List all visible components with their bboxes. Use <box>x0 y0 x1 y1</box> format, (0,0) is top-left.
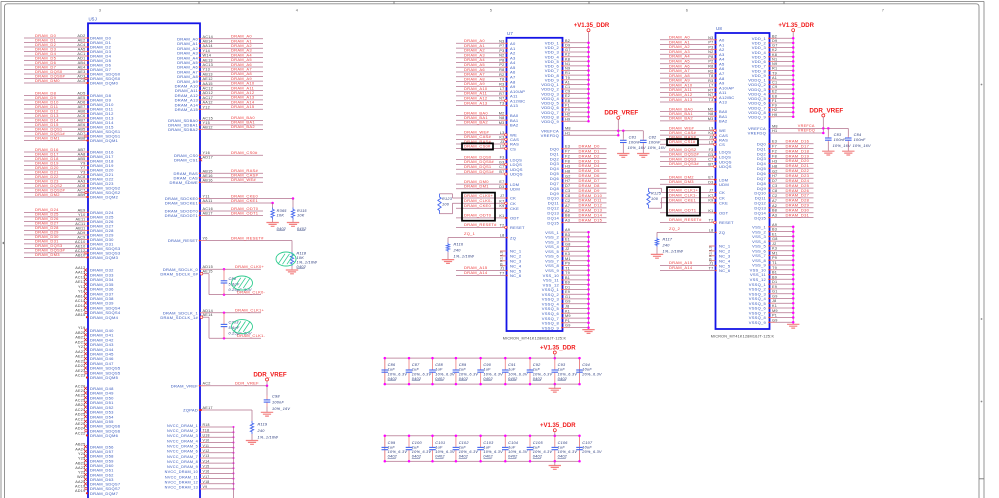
svg-text:AA15: AA15 <box>203 82 213 86</box>
svg-text:F8: F8 <box>772 155 777 159</box>
svg-text:P7: P7 <box>708 41 713 45</box>
svg-text:G9: G9 <box>565 300 571 304</box>
svg-text:M2: M2 <box>708 108 714 112</box>
svg-text:DRAM_DM2: DRAM_DM2 <box>35 192 60 197</box>
svg-text:DRAM_DQS3#: DRAM_DQS3# <box>669 161 699 166</box>
svg-text:K3: K3 <box>772 247 777 251</box>
svg-text:R7: R7 <box>499 92 504 96</box>
svg-text:R3: R3 <box>708 79 713 83</box>
svg-text:C90: C90 <box>483 363 491 367</box>
svg-text:NVCC_DRAM_1: NVCC_DRAM_1 <box>167 424 198 428</box>
svg-text:J2: J2 <box>565 247 570 251</box>
svg-text:AB17: AB17 <box>203 212 213 216</box>
svg-text:G9: G9 <box>565 324 571 328</box>
svg-text:AD1: AD1 <box>77 57 85 61</box>
svg-text:10%_6.3V: 10%_6.3V <box>388 450 408 454</box>
svg-text:H8: H8 <box>565 169 570 173</box>
svg-text:1uF: 1uF <box>459 445 467 449</box>
svg-text:10%_6.3V: 10%_6.3V <box>508 450 528 454</box>
svg-text:B8: B8 <box>565 214 570 218</box>
svg-text:AB7: AB7 <box>78 148 86 152</box>
svg-text:C7: C7 <box>499 165 504 169</box>
svg-text:AC24: AC24 <box>75 408 86 412</box>
svg-text:P3: P3 <box>708 45 713 49</box>
svg-text:Y15: Y15 <box>203 121 211 125</box>
svg-text:R8: R8 <box>708 65 713 69</box>
svg-text:Y14: Y14 <box>78 290 86 294</box>
svg-text:100nF: 100nF <box>649 140 661 144</box>
svg-text:0402: 0402 <box>412 455 422 459</box>
svg-text:H7: H7 <box>772 174 777 178</box>
svg-text:0402: 0402 <box>533 455 543 459</box>
svg-text:C8: C8 <box>772 189 777 193</box>
svg-text:AC7: AC7 <box>77 189 85 193</box>
svg-text:240: 240 <box>257 429 266 433</box>
svg-text:AE23: AE23 <box>75 369 85 373</box>
svg-text:AD2: AD2 <box>77 34 85 38</box>
svg-text:NVCC_DRAM_6: NVCC_DRAM_6 <box>167 450 198 454</box>
svg-text:Y13: Y13 <box>78 285 86 289</box>
svg-text:+V1.35_DDR: +V1.35_DDR <box>574 23 610 29</box>
svg-text:W14: W14 <box>203 54 212 58</box>
svg-text:K1: K1 <box>772 304 777 308</box>
svg-text:DQ15: DQ15 <box>547 220 559 225</box>
svg-text:0402: 0402 <box>459 455 469 459</box>
svg-text:C92: C92 <box>533 363 541 367</box>
svg-text:DRAM_A13: DRAM_A13 <box>464 100 488 105</box>
svg-text:UDM: UDM <box>719 182 729 187</box>
svg-text:A13: A13 <box>719 100 727 105</box>
svg-text:P8: P8 <box>499 58 504 62</box>
svg-text:Y16: Y16 <box>203 151 211 155</box>
svg-text:0402: 0402 <box>558 377 568 381</box>
svg-text:E2: E2 <box>565 94 570 98</box>
svg-text:+V1.35_DDR: +V1.35_DDR <box>540 345 576 351</box>
svg-text:MICRON_MT41K128M16JT-125:K: MICRON_MT41K128M16JT-125:K <box>711 335 775 339</box>
svg-text:T8: T8 <box>709 74 714 78</box>
svg-text:NC_6: NC_6 <box>510 273 522 278</box>
svg-text:C81: C81 <box>629 135 637 139</box>
svg-text:C100: C100 <box>412 441 423 445</box>
svg-text:+V1.35_DDR: +V1.35_DDR <box>540 423 576 429</box>
svg-text:G8: G8 <box>565 242 571 246</box>
svg-text:DRAM_SDODT1: DRAM_SDODT1 <box>165 213 199 218</box>
svg-text:N7: N7 <box>708 93 713 97</box>
svg-text:C101: C101 <box>435 441 445 445</box>
svg-text:CK: CK <box>719 190 725 195</box>
svg-text:DRAM_CS0#: DRAM_CS0# <box>231 150 258 155</box>
svg-text:C88: C88 <box>435 363 443 367</box>
svg-text:AC13: AC13 <box>75 275 86 279</box>
svg-text:V18: V18 <box>203 480 210 484</box>
svg-text:E1: E1 <box>772 232 777 236</box>
svg-text:AC1: AC1 <box>77 52 85 56</box>
svg-text:F3: F3 <box>500 156 505 160</box>
svg-text:NVCC_DRAM_10: NVCC_DRAM_10 <box>165 470 198 474</box>
svg-text:C1: C1 <box>772 81 777 85</box>
svg-text:E2: E2 <box>772 90 777 94</box>
svg-text:1uF: 1uF <box>412 445 420 449</box>
svg-text:0402: 0402 <box>388 455 398 459</box>
svg-text:N2: N2 <box>708 50 713 54</box>
svg-text:0402: 0402 <box>483 377 493 381</box>
svg-text:10K: 10K <box>277 214 285 218</box>
svg-text:AB8: AB8 <box>78 137 86 141</box>
svg-text:10K: 10K <box>297 214 305 218</box>
svg-text:10%_6.3V: 10%_6.3V <box>483 450 503 454</box>
svg-text:T1: T1 <box>772 261 777 265</box>
svg-text:V15: V15 <box>203 465 210 469</box>
svg-text:10uF: 10uF <box>582 445 592 449</box>
svg-text:R3: R3 <box>499 82 504 86</box>
svg-text:AC22: AC22 <box>75 431 86 435</box>
svg-text:ZQPAD: ZQPAD <box>183 408 198 413</box>
svg-text:1%_1/16W: 1%_1/16W <box>663 249 684 253</box>
svg-text:B2: B2 <box>565 39 570 43</box>
svg-text:AE20: AE20 <box>75 422 85 426</box>
svg-text:L3: L3 <box>709 127 714 131</box>
svg-text:V16: V16 <box>203 470 210 474</box>
svg-text:10%_16V: 10%_16V <box>272 407 290 411</box>
svg-text:0402: 0402 <box>277 227 287 231</box>
svg-text:100nF: 100nF <box>272 401 284 405</box>
svg-text:DRAM_SDCLK_0#: DRAM_SDCLK_0# <box>160 271 198 276</box>
svg-text:V13: V13 <box>203 454 210 458</box>
svg-text:AC9: AC9 <box>77 235 85 239</box>
svg-text:T3: T3 <box>500 102 505 106</box>
svg-text:Y10: Y10 <box>78 213 86 217</box>
svg-text:1%_1/16W: 1%_1/16W <box>454 255 475 259</box>
svg-text:H2: H2 <box>565 113 570 117</box>
svg-text:E9: E9 <box>565 290 570 294</box>
svg-text:B2: B2 <box>772 34 777 38</box>
svg-text:R7: R7 <box>708 88 713 92</box>
svg-text:K3: K3 <box>499 135 504 139</box>
svg-text:DRAM_DQM5: DRAM_DQM5 <box>90 375 119 380</box>
svg-text:AD5: AD5 <box>77 92 85 96</box>
svg-text:K1: K1 <box>565 309 570 313</box>
svg-text:1uF: 1uF <box>558 368 566 372</box>
svg-text:240: 240 <box>453 249 462 253</box>
svg-text:DRAM_WE#: DRAM_WE# <box>231 177 256 182</box>
svg-text:DRAM_CLK0+: DRAM_CLK0+ <box>464 193 494 198</box>
svg-text:Y6: Y6 <box>203 237 208 241</box>
svg-text:AB9: AB9 <box>78 193 86 197</box>
svg-text:VREFDQ: VREFDQ <box>748 131 766 136</box>
svg-text:B1: B1 <box>565 276 570 280</box>
svg-text:P8: P8 <box>708 55 713 59</box>
svg-text:C3: C3 <box>772 184 777 188</box>
svg-text:U18: U18 <box>203 434 210 438</box>
svg-text:10%_6.3V: 10%_6.3V <box>483 372 503 376</box>
svg-text:E1: E1 <box>565 238 570 242</box>
svg-text:100: 100 <box>651 197 659 201</box>
svg-text:AD24: AD24 <box>75 427 86 431</box>
svg-text:AD25: AD25 <box>75 413 86 417</box>
svg-text:10%_6.3V: 10%_6.3V <box>533 450 553 454</box>
svg-text:NVCC_DRAM_3: NVCC_DRAM_3 <box>167 434 198 438</box>
svg-text:AB10: AB10 <box>75 253 85 257</box>
svg-text:NVCC_DRAM_4: NVCC_DRAM_4 <box>167 439 198 443</box>
svg-text:C94: C94 <box>582 363 590 367</box>
svg-text:AE15: AE15 <box>203 270 213 274</box>
svg-text:A3: A3 <box>565 219 570 223</box>
svg-text:VREFDQ: VREFDQ <box>541 133 559 138</box>
svg-text:P7: P7 <box>499 44 504 48</box>
svg-text:P9: P9 <box>565 262 570 266</box>
svg-text:C86: C86 <box>388 363 396 367</box>
svg-text:E7: E7 <box>708 176 713 180</box>
svg-text:C82: C82 <box>649 135 657 139</box>
svg-text:P1: P1 <box>772 314 777 318</box>
svg-text:H1: H1 <box>565 131 570 135</box>
svg-text:NVCC_DRAM_5: NVCC_DRAM_5 <box>167 444 198 448</box>
svg-text:DRAM_SDCLK_1#: DRAM_SDCLK_1# <box>160 315 198 320</box>
svg-text:K1: K1 <box>708 209 713 213</box>
svg-text:A9: A9 <box>772 223 777 227</box>
svg-text:0402: 0402 <box>435 455 445 459</box>
svg-text:B9: B9 <box>565 281 570 285</box>
svg-text:N9: N9 <box>772 62 777 66</box>
svg-text:L2: L2 <box>500 145 505 149</box>
svg-text:AE16: AE16 <box>203 174 213 178</box>
svg-text:DRAM_ODT1: DRAM_ODT1 <box>669 208 697 213</box>
svg-text:DRAM_DQM3: DRAM_DQM3 <box>90 255 119 260</box>
svg-text:VREFCA: VREFCA <box>798 124 815 128</box>
svg-text:AE4: AE4 <box>78 66 86 70</box>
svg-text:VSSQ_9: VSSQ_9 <box>542 325 560 330</box>
svg-text:T9: T9 <box>772 266 777 270</box>
svg-text:100: 100 <box>442 203 450 207</box>
svg-text:K9: K9 <box>499 204 504 208</box>
svg-text:C107: C107 <box>582 441 593 445</box>
svg-text:H2: H2 <box>772 108 777 112</box>
svg-text:AC6: AC6 <box>77 114 85 118</box>
svg-text:K2: K2 <box>772 48 777 52</box>
svg-text:ZQ: ZQ <box>510 235 516 240</box>
svg-text:UDQS: UDQS <box>510 172 523 177</box>
svg-text:T1: T1 <box>565 266 570 270</box>
svg-text:AC23: AC23 <box>75 374 86 378</box>
svg-text:AE11: AE11 <box>75 217 85 221</box>
svg-text:J7: J7 <box>500 194 505 198</box>
svg-text:AE6: AE6 <box>78 123 86 127</box>
svg-text:C91: C91 <box>508 363 516 367</box>
svg-text:L3: L3 <box>500 131 505 135</box>
svg-text:AA8: AA8 <box>78 153 86 157</box>
svg-text:F1: F1 <box>565 104 570 108</box>
svg-text:1uF: 1uF <box>435 368 443 372</box>
svg-text:1uF: 1uF <box>388 368 396 372</box>
svg-text:DRAM_ODT0: DRAM_ODT0 <box>464 213 492 218</box>
svg-text:AE14: AE14 <box>75 309 85 313</box>
svg-text:DRAM_BA2: DRAM_BA2 <box>669 116 693 121</box>
svg-text:Y22: Y22 <box>78 471 86 475</box>
svg-text:AC5: AC5 <box>77 79 85 83</box>
svg-text:K7: K7 <box>708 194 713 198</box>
svg-text:ZQ: ZQ <box>719 230 725 235</box>
svg-text:AE25: AE25 <box>75 394 85 398</box>
svg-text:AC19: AC19 <box>75 485 86 489</box>
svg-text:D9: D9 <box>772 39 777 43</box>
svg-text:10uF: 10uF <box>582 368 592 372</box>
svg-text:B8: B8 <box>772 209 777 213</box>
svg-text:J2: J2 <box>772 242 777 246</box>
svg-text:Y25: Y25 <box>78 457 86 461</box>
svg-text:G7: G7 <box>565 48 571 52</box>
svg-text:10%_6.3V: 10%_6.3V <box>435 450 455 454</box>
svg-text:D3: D3 <box>499 185 504 189</box>
svg-text:B7: B7 <box>499 170 504 174</box>
svg-text:CKE: CKE <box>510 206 519 211</box>
svg-text:C9: C9 <box>772 85 777 89</box>
svg-text:10%_6.3V: 10%_6.3V <box>412 450 432 454</box>
svg-text:T7: T7 <box>709 267 714 271</box>
svg-text:H1: H1 <box>772 129 777 133</box>
svg-text:5.6pF: 5.6pF <box>229 283 240 287</box>
svg-text:100nF: 100nF <box>629 140 641 144</box>
svg-text:F2: F2 <box>565 155 570 159</box>
svg-text:K1: K1 <box>499 214 504 218</box>
svg-text:C105: C105 <box>533 441 544 445</box>
svg-text:D7: D7 <box>772 179 777 183</box>
svg-text:L8: L8 <box>500 234 505 238</box>
svg-text:AB5: AB5 <box>78 128 86 132</box>
svg-text:AB11: AB11 <box>75 226 85 230</box>
svg-text:AE13: AE13 <box>75 280 85 284</box>
svg-text:A9: A9 <box>565 228 570 232</box>
svg-text:M2: M2 <box>499 112 505 116</box>
svg-text:DDR_VREF: DDR_VREF <box>235 381 259 386</box>
svg-text:K8: K8 <box>772 53 777 57</box>
svg-text:C2: C2 <box>772 194 777 198</box>
svg-text:AD19: AD19 <box>75 489 86 493</box>
svg-text:ZQ_1: ZQ_1 <box>464 231 476 236</box>
svg-text:AB14: AB14 <box>203 40 213 44</box>
svg-text:E9: E9 <box>772 285 777 289</box>
svg-text:10%_6.3V: 10%_6.3V <box>558 450 578 454</box>
svg-text:D3: D3 <box>708 180 713 184</box>
svg-text:Y3: Y3 <box>80 171 85 175</box>
svg-text:AA12: AA12 <box>75 266 85 270</box>
svg-text:N9: N9 <box>565 67 570 71</box>
svg-text:AA24: AA24 <box>75 447 85 451</box>
svg-text:DQ15: DQ15 <box>754 215 766 220</box>
svg-text:AC14: AC14 <box>203 35 214 39</box>
svg-text:H9: H9 <box>772 113 777 117</box>
svg-text:J9 K1 L3: J9 K1 L3 <box>709 246 713 262</box>
svg-text:AD12: AD12 <box>203 91 214 95</box>
svg-text:F9: F9 <box>772 104 777 108</box>
svg-text:A1: A1 <box>772 76 777 80</box>
svg-text:D9: D9 <box>565 43 570 47</box>
svg-text:10%_16V: 10%_16V <box>648 146 666 150</box>
svg-text:AA5: AA5 <box>78 48 86 52</box>
svg-text:C99: C99 <box>388 441 396 445</box>
svg-text:100nF: 100nF <box>854 138 866 142</box>
svg-text:N1: N1 <box>565 62 570 66</box>
svg-text:B7: B7 <box>708 162 713 166</box>
svg-text:H7: H7 <box>565 179 570 183</box>
svg-text:NVCC_DRAM_9: NVCC_DRAM_9 <box>167 465 198 469</box>
svg-text:Y24: Y24 <box>78 452 86 456</box>
svg-text:0402: 0402 <box>483 455 493 459</box>
svg-text:BA2: BA2 <box>510 123 519 128</box>
svg-text:1%_1/16W: 1%_1/16W <box>258 435 279 439</box>
svg-text:K9: K9 <box>708 199 713 203</box>
svg-text:G1: G1 <box>565 295 571 299</box>
svg-text:DRAM_RESET#: DRAM_RESET# <box>669 217 702 222</box>
svg-text:G1: G1 <box>772 290 778 294</box>
svg-text:AB5: AB5 <box>78 157 86 161</box>
svg-text:AE24: AE24 <box>75 389 85 393</box>
svg-text:20%_6.3V: 20%_6.3V <box>581 372 602 376</box>
svg-text:F9: F9 <box>565 108 570 112</box>
svg-text:DRAM_DM3: DRAM_DM3 <box>35 252 60 257</box>
svg-text:U5J: U5J <box>89 16 98 21</box>
svg-text:H3: H3 <box>772 159 777 163</box>
svg-text:H9: H9 <box>565 117 570 121</box>
svg-text:R119: R119 <box>258 422 268 426</box>
svg-text:J1: J1 <box>500 267 505 271</box>
svg-text:C83: C83 <box>834 133 842 137</box>
svg-text:10%_6.3V: 10%_6.3V <box>388 372 408 376</box>
svg-text:A3: A3 <box>772 214 777 218</box>
svg-text:0402: 0402 <box>412 377 422 381</box>
svg-text:F2: F2 <box>772 150 777 154</box>
svg-text:AC14: AC14 <box>75 299 86 303</box>
svg-text:V9: V9 <box>203 485 208 489</box>
svg-text:R8: R8 <box>499 68 504 72</box>
svg-text:DRAM_DQM6: DRAM_DQM6 <box>90 433 119 438</box>
svg-text:DRAM_A14: DRAM_A14 <box>669 265 693 270</box>
svg-text:E3: E3 <box>565 145 570 149</box>
svg-text:AD6: AD6 <box>77 101 85 105</box>
svg-text:RESET: RESET <box>510 225 525 230</box>
svg-text:DRAM_D31: DRAM_D31 <box>786 212 810 217</box>
svg-text:ZQ_2: ZQ_2 <box>669 226 681 231</box>
svg-text:0402: 0402 <box>459 377 469 381</box>
svg-text:DRAM_A15: DRAM_A15 <box>231 104 255 109</box>
svg-text:DRAM_CS1#: DRAM_CS1# <box>669 139 696 144</box>
svg-text:UDM: UDM <box>510 187 520 192</box>
svg-text:D7: D7 <box>565 184 570 188</box>
svg-text:10%_6.3V: 10%_6.3V <box>558 372 578 376</box>
svg-text:A2: A2 <box>565 209 570 213</box>
svg-text:M8: M8 <box>772 124 778 128</box>
svg-text:V10: V10 <box>203 439 210 443</box>
svg-text:K3: K3 <box>565 252 570 256</box>
svg-text:0402: 0402 <box>388 377 398 381</box>
svg-text:Y11: Y11 <box>203 195 210 199</box>
svg-text:DRAM_DQM1: DRAM_DQM1 <box>90 138 119 143</box>
svg-text:0402: 0402 <box>533 377 543 381</box>
svg-text:AB12: AB12 <box>203 125 213 129</box>
svg-text:C102: C102 <box>459 441 470 445</box>
svg-text:CKE: CKE <box>719 200 728 205</box>
svg-text:DRAM_RESET#: DRAM_RESET# <box>231 235 264 240</box>
svg-text:DDR_VREF: DDR_VREF <box>604 110 638 117</box>
svg-text:1uF: 1uF <box>388 445 396 449</box>
svg-text:DRAM_DQM4: DRAM_DQM4 <box>90 315 119 320</box>
svg-text:T8: T8 <box>500 78 505 82</box>
svg-text:DRAM_CLK0+: DRAM_CLK0+ <box>235 264 265 269</box>
svg-text:B3: B3 <box>565 233 570 237</box>
svg-text:AC2: AC2 <box>203 382 211 386</box>
svg-text:H3: H3 <box>565 164 570 168</box>
svg-text:M3: M3 <box>499 121 505 125</box>
svg-text:AD22: AD22 <box>75 364 86 368</box>
